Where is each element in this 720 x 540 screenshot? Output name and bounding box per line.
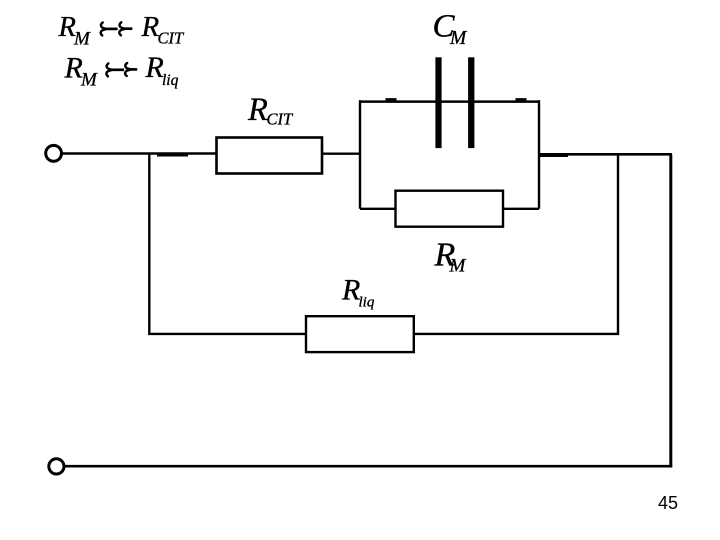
wire bottom rail (64, 465, 672, 468)
parallel block left vertical wire (359, 100, 361, 208)
svg-text:M: M (449, 256, 467, 277)
svg-text:CIT: CIT (267, 109, 295, 128)
wire RM right to box (503, 208, 539, 210)
wire box to RM left (360, 208, 396, 210)
wire junction drop to Rliq (617, 154, 619, 335)
svg-text:R: R (341, 274, 360, 307)
resistor RM (396, 191, 504, 227)
wire overlap segment near node A (157, 154, 188, 156)
label condition RM >> RCIT (58, 11, 186, 49)
capacitor CM right plate (468, 57, 474, 148)
svg-text:45: 45 (658, 493, 678, 513)
node OUT terminal (bottom-left) (49, 459, 64, 474)
wire Rliq right to junction (414, 333, 619, 335)
node IN terminal (top-left) (46, 145, 62, 161)
svg-text:R: R (247, 92, 268, 128)
wire overlap segment right (540, 155, 568, 157)
label condition RM >> Rliq (64, 51, 179, 90)
wire to Rliq left (148, 333, 306, 335)
wire top from terminal to RCIT (62, 152, 218, 154)
tick on top wire right (516, 98, 527, 100)
svg-text:M: M (80, 70, 98, 91)
wire node A drop (148, 154, 150, 336)
tick on top wire left (386, 98, 397, 100)
wire parallel block to right rail (539, 153, 672, 156)
resistor RCIT (217, 138, 323, 174)
capacitor CM left plate (435, 57, 441, 148)
svg-text:liq: liq (359, 294, 375, 310)
svg-text:CIT: CIT (158, 28, 186, 47)
resistor Rliq (306, 316, 414, 352)
parallel block right vertical wire (538, 100, 540, 208)
parallel block top wire (359, 100, 540, 103)
svg-text:M: M (449, 28, 468, 49)
svg-text:M: M (73, 28, 91, 49)
svg-text:R: R (145, 51, 164, 84)
wire RCIT to parallel block (322, 152, 361, 154)
svg-text:R: R (64, 51, 83, 84)
wire right rail vertical (669, 154, 672, 466)
svg-text:liq: liq (162, 72, 179, 89)
